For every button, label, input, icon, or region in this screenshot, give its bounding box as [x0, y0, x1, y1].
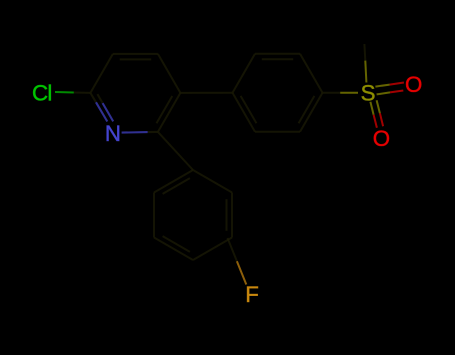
pyridine ring side C2-C3	[90, 54, 113, 93]
bond S-CH3	[365, 61, 366, 83]
bond C5-phenylA	[180, 92, 232, 94]
bond C6-phenylF	[158, 132, 193, 170]
phenylF ring side BR-B	[193, 238, 232, 261]
phenylA ring side TR-R	[300, 54, 323, 93]
svg-text:O: O	[373, 126, 390, 151]
phenylF ring side T-TR	[193, 170, 232, 193]
phenylA ring side TL-TR (double)	[255, 53, 300, 55]
phenylA ring side BR-BL	[255, 131, 300, 133]
phenylF ring side TL-T (double)	[154, 170, 193, 193]
pyridine ring side C4-C5	[158, 54, 181, 93]
phenylF ring side B-BL (double)	[154, 238, 193, 261]
bond C2-Cl	[74, 92, 91, 94]
svg-text:O: O	[405, 72, 422, 97]
phenylA ring side L-TL	[233, 54, 256, 93]
phenylA ring side R-BR (double)	[300, 93, 323, 132]
pyridine ring side C3-C4 (double)	[113, 53, 158, 55]
svg-text:N: N	[105, 121, 121, 146]
pyridine ring side C5-C6 (double)	[158, 93, 181, 132]
svg-text:S: S	[361, 81, 376, 106]
pyridine bond N1-C6	[122, 131, 148, 134]
bond C-F	[228, 238, 237, 261]
svg-text:F: F	[245, 282, 259, 307]
bond phenylA-S	[323, 92, 341, 94]
pyridine double bond C2=N1	[90, 93, 96, 102]
svg-text:Cl: Cl	[32, 81, 52, 106]
double bond S=O lower	[377, 100, 380, 113]
phenylF ring side TR-BR (double)	[231, 193, 233, 238]
phenylA ring side BL-L (double)	[233, 93, 256, 132]
double bond S=O upper	[375, 85, 389, 87]
phenylF ring side BL-TL	[153, 193, 155, 238]
